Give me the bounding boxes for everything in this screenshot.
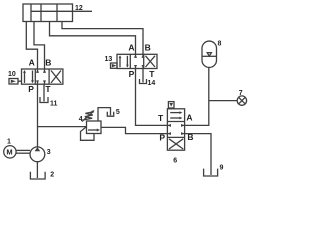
svg-text:3: 3 [47, 149, 51, 156]
wire block12 to valve10 port A [26, 22, 37, 69]
relief valve 4 internal arrow [88, 129, 100, 132]
valve U10 body [22, 69, 63, 84]
tank 11 [40, 97, 48, 103]
label 12 leader line [73, 10, 93, 12]
pilot cap on valve 6 [168, 102, 174, 108]
relief valve 4 adjustment arrow [82, 110, 95, 121]
svg-text:B: B [145, 42, 151, 52]
svg-text:5: 5 [116, 109, 120, 116]
relief valve 4 spring [84, 112, 93, 120]
wire valve10 P down to pump [37, 84, 39, 147]
svg-text:1: 1 [7, 138, 11, 145]
accumulator 8 [202, 41, 217, 67]
svg-text:10: 10 [8, 71, 16, 78]
valve U6 body [167, 109, 184, 150]
motor M1 [4, 146, 16, 158]
svg-text:T: T [158, 113, 164, 123]
svg-text:T: T [149, 69, 155, 79]
svg-text:T: T [45, 84, 51, 94]
main pressure line to relief valve [38, 126, 87, 128]
svg-text:A: A [186, 113, 192, 123]
coupling shaft [16, 150, 30, 153]
svg-text:11: 11 [50, 101, 58, 108]
valve U13 center cell blocked ports [134, 54, 144, 68]
valve U10 center cell blocked ports [36, 69, 46, 84]
svg-text:P: P [28, 84, 34, 94]
tank 14 [140, 79, 147, 84]
pump 3 [30, 147, 45, 162]
svg-text:7: 7 [239, 90, 243, 97]
svg-text:M: M [6, 148, 12, 157]
relief valve vent line to tank 5 [98, 108, 111, 121]
relief valve pilot sensing loop [81, 127, 95, 141]
tank 9 [204, 169, 218, 176]
main line from relief valve to valve6 port P [101, 127, 167, 133]
svg-text:P: P [129, 69, 135, 79]
valve U10 right cell crossed arrows [51, 71, 61, 83]
valve U13 left cell arrows [119, 55, 129, 67]
valve U6 middle cell blocked ports [167, 124, 184, 135]
svg-text:13: 13 [105, 56, 113, 63]
svg-text:A: A [128, 42, 134, 52]
wire valve13 T to tank 14 [142, 69, 144, 83]
solenoid of valve 10 [9, 79, 22, 85]
wire valve10 T to tank 11 [43, 84, 45, 101]
svg-text:A: A [29, 57, 35, 67]
svg-text:4: 4 [79, 116, 83, 123]
valve U6 bottom cell crossed arrows [169, 139, 183, 149]
valve U10 left cell arrows [23, 70, 34, 83]
svg-text:8: 8 [218, 41, 222, 48]
wire block12 to valve10 port B [34, 22, 45, 69]
svg-text:B: B [45, 57, 51, 67]
gauge 7 [237, 96, 246, 105]
valve U13 body [117, 54, 157, 68]
valve U6 top cell arrows [170, 111, 182, 119]
wire valve13 P to valve6 port T [136, 69, 168, 126]
manifold block 12 [23, 4, 73, 22]
svg-text:14: 14 [148, 80, 156, 87]
valve U13 right cell crossed arrows [146, 56, 156, 67]
relief valve 4 body [87, 121, 102, 134]
svg-text:P: P [159, 133, 165, 143]
wire block12 to valve13 port A [50, 22, 136, 55]
svg-text:2: 2 [50, 172, 54, 179]
tank 2 [30, 172, 45, 179]
wire valve6 A to accumulator [185, 68, 209, 126]
svg-text:9: 9 [220, 165, 224, 172]
wire to gauge 7 [209, 100, 237, 102]
wire block12 to valve13 port B [62, 22, 143, 55]
solenoid of valve 13 [111, 63, 118, 68]
svg-text:6: 6 [173, 157, 177, 164]
wire valve6 B to tank 9 [185, 134, 211, 175]
pump suction line [36, 162, 38, 178]
svg-text:12: 12 [75, 5, 83, 12]
tank 5 [107, 112, 113, 116]
